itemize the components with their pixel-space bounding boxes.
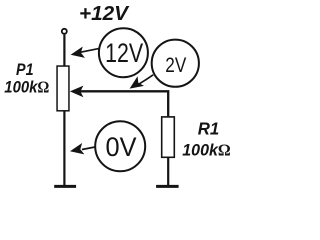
arrow: 0V meter to ground wire — [82, 147, 95, 150]
wiper arrow into P1 — [70, 86, 84, 98]
resistor R1 body — [162, 117, 175, 157]
svg-text:P1: P1 — [16, 60, 34, 79]
meter circle 0V — [95, 121, 145, 171]
svg-text:100kΩ: 100kΩ — [182, 141, 231, 160]
wire: P1 bottom to ground — [63, 111, 65, 186]
wire: R1 bottom to ground — [167, 157, 169, 185]
svg-text:12V: 12V — [105, 38, 143, 68]
ground (R1) — [156, 185, 179, 188]
svg-text:+12V: +12V — [79, 2, 130, 25]
wire: wiper to R1 top corner — [80, 91, 168, 117]
meter circle 2V — [152, 40, 199, 87]
arrow: 12V meter to top wire — [80, 48, 100, 52]
svg-text:2V: 2V — [165, 53, 187, 77]
ground (P1) — [54, 185, 76, 188]
potentiometer P1 body — [57, 66, 69, 111]
svg-text:R1: R1 — [198, 119, 220, 139]
meter circle 12V — [99, 28, 148, 77]
wire: terminal to P1 top — [63, 35, 65, 67]
terminal node (+12V) — [62, 29, 67, 34]
svg-text:0V: 0V — [106, 132, 137, 162]
svg-text:100kΩ: 100kΩ — [4, 78, 49, 97]
arrow: 2V meter to wiper wire (curved) — [139, 75, 154, 85]
